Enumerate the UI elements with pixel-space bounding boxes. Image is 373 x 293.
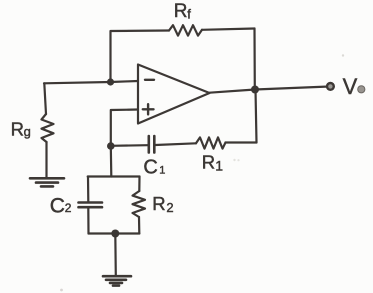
wire output node to terminal bbox=[255, 87, 326, 90]
label Rg bbox=[11, 119, 31, 140]
resistor R2 bbox=[133, 191, 146, 217]
node output junction bbox=[251, 86, 259, 94]
wire feedback top-left vertical from inverting node to Rf bbox=[111, 31, 170, 82]
svg-text:R: R bbox=[152, 193, 165, 214]
op-amp plus sign bbox=[143, 104, 154, 114]
svg-text:g: g bbox=[24, 124, 31, 139]
terminal Vo circle bbox=[327, 83, 334, 90]
label C1 bbox=[143, 156, 165, 178]
svg-text:f: f bbox=[187, 6, 191, 21]
wire tank bottom horizontal bbox=[89, 232, 140, 234]
node tank bottom junction bbox=[111, 230, 119, 238]
faint speck upper-right bbox=[342, 54, 344, 56]
faint specks right of R1 label bbox=[233, 159, 239, 161]
wire inverting input horizontal bbox=[44, 81, 138, 83]
wire C1 to R1 bbox=[156, 143, 197, 145]
wire output from op-amp to node bbox=[210, 90, 256, 93]
svg-text:V: V bbox=[343, 74, 358, 99]
svg-text:C: C bbox=[50, 195, 65, 218]
capacitor C2 bbox=[79, 203, 103, 208]
wire R2 branch lower vertical bbox=[138, 217, 141, 234]
capacitor C1 bbox=[149, 136, 155, 153]
wire non-inverting input horizontal bbox=[111, 110, 138, 147]
node C1 tap junction bbox=[107, 142, 115, 150]
op-amp minus sign bbox=[145, 79, 154, 81]
svg-text:1: 1 bbox=[215, 158, 223, 174]
wire output node down to R1 bbox=[256, 90, 257, 143]
label Rf bbox=[174, 1, 191, 22]
faint speck bottom-left bbox=[60, 289, 63, 292]
ground under Rg bbox=[30, 178, 64, 186]
wire C1 R1 horizontal left segment bbox=[111, 144, 148, 147]
svg-text:2: 2 bbox=[166, 200, 173, 215]
svg-text:R: R bbox=[11, 119, 24, 140]
label R1 bbox=[202, 152, 224, 174]
svg-text:C: C bbox=[143, 156, 157, 178]
wire R1 to output column bbox=[226, 141, 257, 143]
svg-text:2: 2 bbox=[65, 201, 72, 215]
wire tank top horizontal bbox=[88, 175, 140, 177]
wire C2 branch lower vertical bbox=[87, 208, 89, 233]
label R2 bbox=[152, 193, 173, 215]
wire Rf right to output column bbox=[202, 29, 255, 30]
label C2 bbox=[50, 195, 72, 218]
resistor Rf bbox=[169, 25, 202, 35]
wire bottom node to ground bbox=[114, 234, 117, 276]
wire C2 branch upper vertical bbox=[87, 177, 90, 202]
resistor R1 bbox=[196, 137, 226, 148]
wire plus node down to tank top bbox=[110, 146, 113, 177]
node inverting input junction bbox=[107, 78, 114, 85]
svg-text:R: R bbox=[174, 1, 188, 22]
wire Rg bottom to ground bbox=[45, 142, 47, 178]
wire right column down to output node bbox=[253, 29, 256, 90]
svg-text:1: 1 bbox=[159, 164, 165, 176]
svg-text:R: R bbox=[202, 152, 215, 173]
wire Rg top vertical bbox=[44, 83, 46, 114]
wire R2 branch upper vertical bbox=[138, 177, 140, 192]
label Vo bbox=[343, 74, 365, 99]
ground bottom bbox=[103, 276, 131, 285]
op-amp U1 bbox=[138, 65, 210, 124]
resistor Rg bbox=[42, 114, 54, 142]
